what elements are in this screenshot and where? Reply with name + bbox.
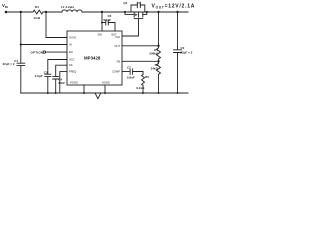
svg-text:FB: FB [117, 59, 121, 63]
svg-text:R3: R3 [145, 75, 149, 79]
svg-text:SW: SW [98, 32, 103, 36]
svg-text:0.1µF: 0.1µF [104, 18, 112, 22]
svg-text:6.8nF: 6.8nF [127, 75, 135, 79]
svg-text:AGND: AGND [102, 80, 110, 84]
svg-text:IN: IN [69, 43, 72, 47]
svg-text:FREQ: FREQ [69, 70, 76, 74]
svg-text:VIN: VIN [2, 3, 8, 9]
svg-text:4mΩ: 4mΩ [34, 16, 41, 20]
svg-text:22µF × 3: 22µF × 3 [180, 50, 192, 54]
svg-text:9.1kΩ: 9.1kΩ [136, 86, 145, 90]
svg-text:2.2µF: 2.2µF [35, 74, 43, 78]
svg-text:C1: C1 [14, 59, 18, 63]
svg-text:C7: C7 [127, 66, 131, 70]
svg-text:22µF × 2: 22µF × 2 [3, 62, 15, 66]
svg-text:SS: SS [69, 63, 73, 67]
svg-text:COMP: COMP [112, 70, 120, 74]
svg-text:C5: C5 [137, 1, 141, 5]
svg-text:ISO: ISO [115, 35, 120, 39]
svg-text:Q1: Q1 [123, 1, 127, 5]
svg-text:R4: R4 [35, 5, 39, 9]
svg-text:34kΩ: 34kΩ [151, 67, 159, 71]
svg-text:C3: C3 [44, 70, 48, 74]
svg-text:300kΩ: 300kΩ [149, 52, 159, 56]
svg-text:EN: EN [69, 50, 73, 54]
svg-text:MP3428: MP3428 [84, 56, 101, 61]
svg-text:VOUT=12V/2.1A: VOUT=12V/2.1A [152, 3, 196, 9]
svg-text:OUT: OUT [114, 44, 120, 48]
svg-text:SYNC: SYNC [69, 36, 76, 40]
svg-text:VCC: VCC [69, 58, 75, 62]
svg-text:33nF: 33nF [58, 81, 65, 85]
svg-text:L1 2.2µH: L1 2.2µH [61, 5, 75, 9]
svg-text:PGND: PGND [70, 80, 78, 84]
svg-text:OPTION: OPTION [31, 51, 44, 55]
